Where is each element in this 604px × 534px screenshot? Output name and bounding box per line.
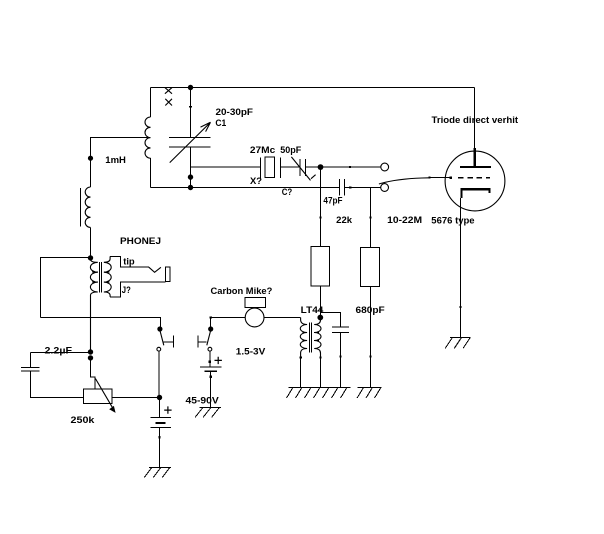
svg-text:250k: 250k bbox=[71, 415, 96, 426]
node T1 primary top bbox=[88, 255, 93, 260]
wire LT44 primary to ground bbox=[300, 358, 302, 388]
phone jack tip spring bbox=[149, 267, 161, 272]
microphone rect bbox=[245, 297, 265, 307]
tube plate bar bbox=[460, 166, 491, 168]
tube plate lead thick bbox=[474, 148, 476, 166]
svg-text:Triode direct verhit: Triode direct verhit bbox=[432, 115, 519, 126]
potentiometer wiper lead bbox=[91, 358, 95, 389]
wire mike row right bbox=[264, 317, 301, 319]
capacitor across LT44 secondary plates bbox=[332, 327, 349, 332]
wire mike branch down bbox=[210, 318, 212, 330]
battery B1 lead bbox=[159, 398, 161, 418]
pin tick on terminal 1 wire bbox=[349, 166, 351, 168]
wire tank left vertical top bbox=[150, 88, 152, 118]
capacitor C1 variable plates bbox=[169, 138, 210, 148]
switch 2 open contact bbox=[208, 347, 212, 351]
terminal circle 2 bbox=[381, 184, 389, 192]
wire 47pF to terminal 2 bbox=[345, 187, 381, 189]
wire 2.2uF row bbox=[31, 352, 91, 354]
svg-text:Carbon Mike?: Carbon Mike? bbox=[211, 286, 273, 297]
wire primary top to left loop bbox=[41, 258, 91, 318]
switch 2 bar bbox=[198, 341, 207, 343]
pin tick mike wire left end bbox=[210, 316, 212, 318]
wire top rail bbox=[151, 87, 475, 89]
node switch 1 top contact bbox=[157, 326, 162, 331]
pin tick on C1 branch bbox=[189, 106, 192, 107]
wire C1 branch lower bbox=[190, 147, 192, 187]
ground tube bbox=[445, 338, 471, 349]
wire plate drop bbox=[474, 88, 476, 149]
wire choke to transformer bbox=[90, 227, 92, 257]
transformer T1 secondary winding bbox=[104, 256, 111, 297]
transformer LT44 secondary winding bbox=[314, 318, 321, 358]
pin tick on grid lead bbox=[429, 177, 431, 179]
node LT44 top bbox=[317, 315, 323, 321]
pin tick on 22k branch bbox=[319, 216, 321, 218]
node switch 2 top contact bbox=[208, 326, 213, 331]
wire bottom rail bbox=[151, 187, 340, 189]
pin square at tube grid bbox=[450, 176, 453, 179]
wire 10-22M branch upper bbox=[370, 188, 372, 248]
transformer LT44 primary winding bbox=[300, 318, 307, 358]
resistor 10-22M bbox=[361, 247, 380, 286]
node main junction bbox=[318, 164, 324, 170]
pin tick above battery 2 bbox=[209, 361, 211, 363]
svg-text:tip: tip bbox=[123, 256, 135, 267]
capacitor 47pF plates bbox=[340, 179, 345, 196]
wire 22k to LT44 node bbox=[320, 286, 322, 318]
node dots bbox=[88, 85, 324, 400]
capacitor 50pF arrow bbox=[291, 157, 315, 181]
wire pot to battery bbox=[112, 397, 160, 399]
svg-text:47pF: 47pF bbox=[323, 196, 342, 207]
pin tick cap ground lead bbox=[339, 355, 341, 357]
pin tick battery B1 lead bbox=[158, 436, 160, 438]
microphone circle bbox=[245, 308, 264, 327]
pin tick below battery 2 bbox=[209, 376, 211, 378]
node dot above rail bbox=[188, 174, 193, 179]
wire switch 1 to battery node bbox=[158, 351, 161, 397]
switch 1 lever bbox=[160, 330, 164, 346]
wire mike row left bbox=[211, 317, 246, 319]
svg-text:1.5-3V: 1.5-3V bbox=[236, 347, 266, 358]
inductor RFC 1mH choke bbox=[85, 187, 90, 227]
X mark 2 bbox=[165, 99, 172, 106]
wire 22k branch upper bbox=[320, 167, 322, 247]
svg-text:2.2µF: 2.2µF bbox=[45, 346, 73, 357]
transformer T1 core bbox=[100, 262, 102, 293]
node battery B1 top bbox=[157, 395, 162, 400]
phone jack sleeve contact bbox=[110, 282, 166, 297]
transformer T1 winding joint ticks bbox=[92, 272, 110, 282]
transformer T1 primary winding bbox=[90, 258, 97, 352]
node C1 top junction bbox=[188, 85, 193, 90]
ground under 680pF bbox=[357, 388, 381, 399]
svg-text:20-30pF: 20-30pF bbox=[216, 107, 254, 118]
pin tick on 10-22M branch bbox=[369, 216, 371, 218]
tube grid dashes bbox=[458, 177, 490, 179]
node dot on rail bbox=[188, 185, 193, 190]
wire left loop bottom to switch 1 bbox=[41, 318, 161, 330]
capacitor 50pF variable plates bbox=[300, 159, 306, 176]
pin tick LT44 secondary bottom bbox=[319, 356, 321, 358]
inductor L tank coil bbox=[145, 117, 151, 158]
svg-text:27Mc: 27Mc bbox=[250, 145, 275, 156]
phone jack top contact bbox=[110, 256, 149, 267]
wire crystal to 50pF bbox=[281, 166, 301, 168]
node tap junction bbox=[88, 156, 93, 161]
tube envelope circle bbox=[445, 151, 505, 211]
svg-text:X?: X? bbox=[250, 176, 262, 187]
wire 47pF row left bbox=[321, 187, 340, 189]
battery B1 plates bbox=[150, 417, 171, 427]
wire 10-22M to ground bbox=[370, 286, 372, 387]
capacitor 2.2uF plates bbox=[21, 368, 39, 372]
svg-text:22k: 22k bbox=[336, 215, 353, 226]
node dots above pot bbox=[88, 349, 93, 354]
svg-text:LT44: LT44 bbox=[301, 305, 324, 316]
ground battery B1 bbox=[144, 468, 171, 478]
pin tick 680pF lead bbox=[369, 355, 371, 357]
wire grid lead bbox=[430, 177, 452, 179]
wire LT44 secondary to ground bbox=[320, 358, 322, 388]
wire cap to ground bbox=[340, 332, 342, 387]
svg-text:5676 type: 5676 type bbox=[431, 216, 474, 227]
plus sign battery B2 bbox=[215, 357, 222, 364]
svg-text:50pF: 50pF bbox=[280, 145, 301, 156]
ground wide under LT44 bbox=[287, 388, 351, 399]
pin tick cathode lead bbox=[459, 306, 461, 308]
capacitor 2.2uF lead bottom bbox=[31, 371, 84, 397]
resistor 22k bbox=[311, 247, 330, 287]
pin tick LT44 primary bottom bbox=[299, 356, 301, 358]
svg-text:680pF: 680pF bbox=[356, 305, 385, 316]
svg-text:C?: C? bbox=[282, 187, 293, 198]
crystal X1 27Mc left plate bbox=[260, 158, 262, 179]
wire 50pF to node bbox=[306, 166, 321, 168]
crystal X1 right plate bbox=[280, 158, 282, 179]
tube cathode bar bbox=[461, 189, 489, 198]
phone jack plug body bbox=[166, 267, 170, 281]
battery B2 bottom lead bbox=[210, 372, 212, 407]
wire tank left vertical bottom bbox=[150, 158, 152, 187]
terminal circle 1 bbox=[381, 163, 389, 171]
capacitor 2.2uF lead top bbox=[30, 353, 32, 368]
wire switch 2 to battery 2 bbox=[209, 351, 211, 367]
transformer LT44 core bbox=[310, 323, 312, 353]
pin tick after 47pF bbox=[349, 186, 351, 188]
X mark 1 bbox=[165, 88, 172, 94]
wire crystal row bbox=[191, 166, 261, 168]
switch 2 lever bbox=[207, 330, 211, 346]
wire cathode to ground bbox=[460, 198, 462, 337]
transformer LT44 winding joint ticks bbox=[302, 333, 319, 341]
potentiometer 250k body bbox=[83, 389, 112, 403]
wire coil tap to choke bbox=[91, 138, 148, 188]
wire C1 branch upper bbox=[190, 88, 192, 138]
svg-text:10-22M: 10-22M bbox=[387, 215, 422, 226]
svg-text:1mH: 1mH bbox=[105, 155, 126, 166]
core bar of 1mH choke bbox=[80, 188, 82, 227]
crystal X1 body bbox=[265, 157, 275, 178]
svg-text:J?: J? bbox=[122, 285, 131, 296]
battery B2 plates bbox=[200, 366, 222, 368]
switch 1 bar bbox=[163, 341, 173, 343]
wire node to terminal 1 bbox=[321, 166, 381, 168]
wire LT44 node to parallel cap bbox=[321, 313, 341, 328]
wire grid lever curve bbox=[379, 178, 430, 184]
battery B1 bottom lead bbox=[159, 428, 161, 468]
plus sign battery B1 bbox=[164, 406, 171, 413]
svg-text:45-90V: 45-90V bbox=[186, 395, 220, 406]
svg-text:C1: C1 bbox=[215, 118, 227, 129]
potentiometer 250k arrow bbox=[95, 379, 114, 411]
svg-text:PHONEJ: PHONEJ bbox=[120, 236, 161, 247]
ground battery B2 bbox=[195, 408, 221, 418]
switch 1 open contact bbox=[157, 347, 161, 351]
capacitor C1 arrow bbox=[170, 122, 211, 162]
